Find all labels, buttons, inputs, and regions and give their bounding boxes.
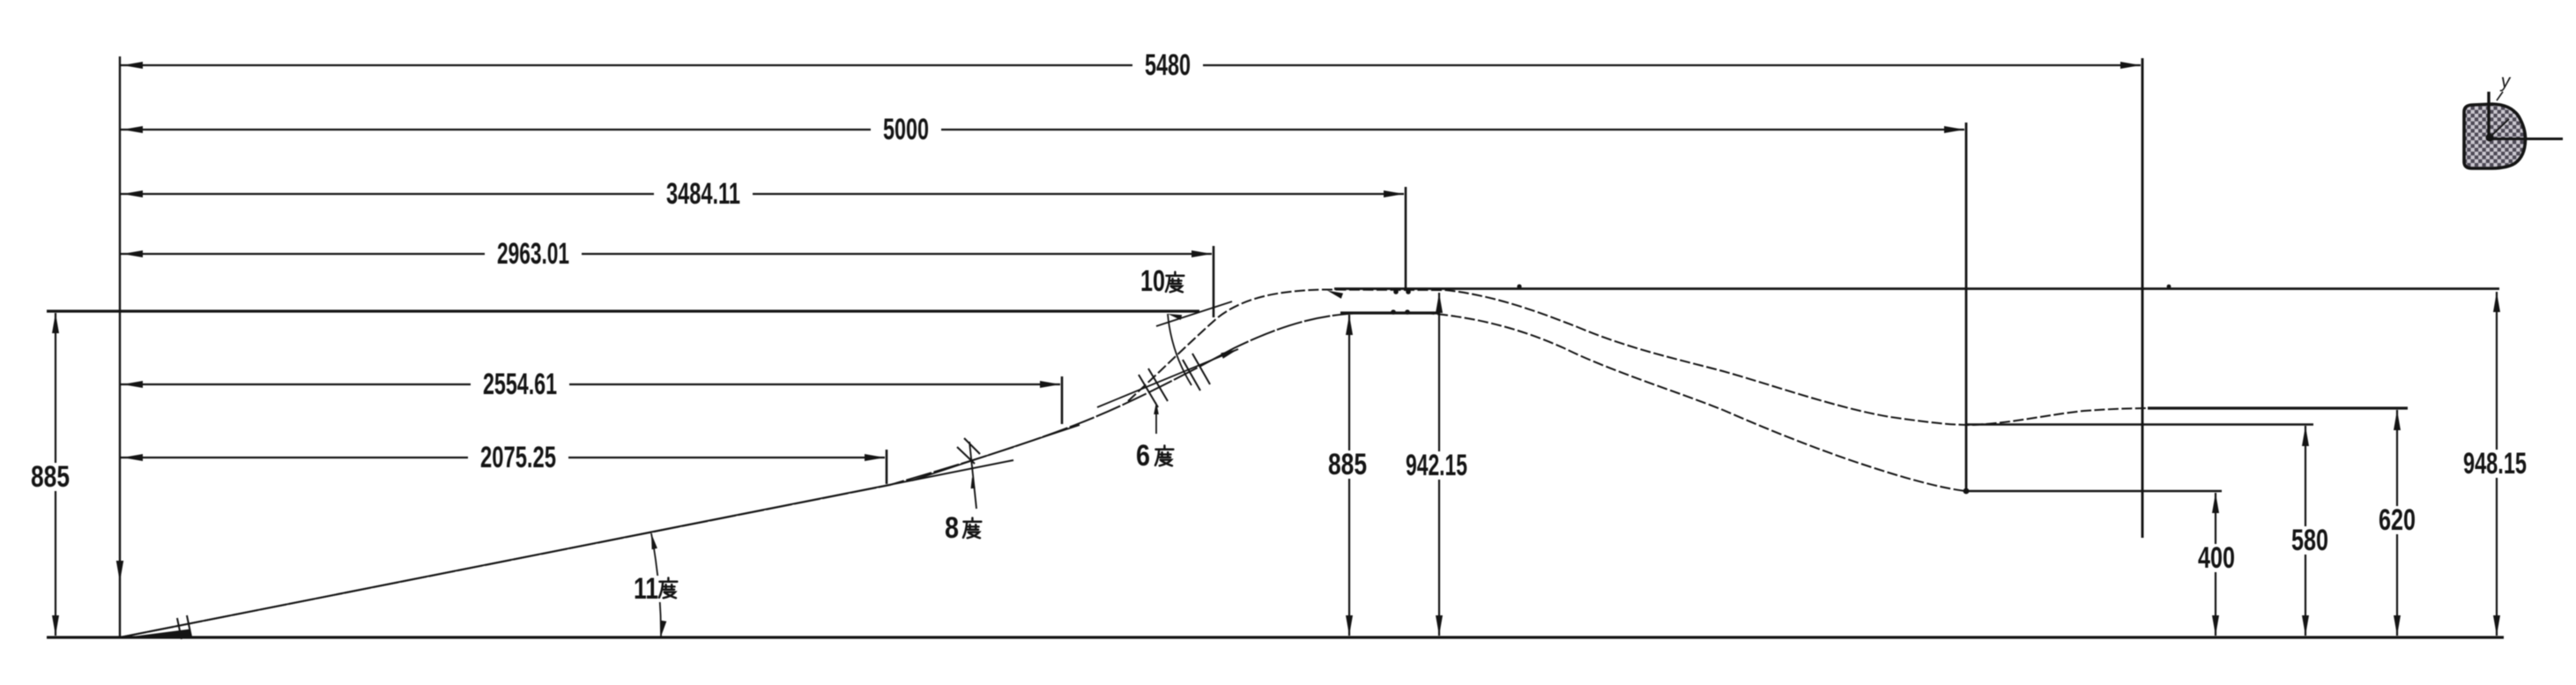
svg-text:400: 400 [2198, 541, 2235, 575]
10-degree tangent chord [1156, 302, 1232, 326]
dimension 2075.25 line [121, 457, 885, 458]
svg-text:2075.25: 2075.25 [480, 441, 556, 474]
dimension 942.15 (crest height upper) top arrow [1436, 293, 1443, 313]
crest tangent point dots on top line [1393, 289, 1399, 294]
8-degree leader stroke through tangent point [969, 442, 976, 509]
dimension 885 (crest height) top arrow [1346, 315, 1353, 335]
extension line for 2075.25 [886, 450, 888, 484]
dimension 3484.11 right arrow [1384, 190, 1404, 197]
dimension 620 top arrow [2394, 410, 2401, 430]
svg-text:2963.01: 2963.01 [497, 237, 569, 271]
948/942-level horizontal reference line (right, through crest top) [1334, 287, 2499, 290]
6-degree leader arrow [1154, 402, 1159, 414]
svg-text:885: 885 [31, 460, 70, 494]
6-degree leader line [1155, 406, 1157, 434]
svg-text:2554.61: 2554.61 [483, 368, 557, 401]
dimension 885 (left height) line [55, 313, 56, 636]
icon origin dot [2486, 134, 2494, 142]
dimension 942.15 (crest height upper) line [1438, 293, 1440, 636]
dimension 948.15 line [2496, 292, 2498, 636]
580-level extension line [1966, 423, 2313, 425]
dimension 942.15 (crest height upper) bottom arrow [1436, 615, 1443, 636]
extension line for 2963.01 [1213, 246, 1215, 317]
down arrow on y-axis [116, 561, 123, 582]
arrow sliver on baseline at origin [129, 629, 190, 638]
dimension 2075.25 left arrow [122, 454, 143, 461]
885-level horizontal reference line (left) [47, 309, 1199, 312]
11-degree straight takeoff line [120, 460, 1013, 637]
dimension 2554.61 line [121, 383, 1060, 385]
8-degree tangent point tick 1 [957, 447, 975, 464]
crest tangent point dots on cap line [1391, 309, 1396, 315]
dimension 2554.61 left arrow [122, 381, 143, 388]
8-degree leader arrow [971, 477, 976, 488]
8-degree tangent chord [912, 425, 1080, 480]
dimension 3484.11 left arrow [122, 190, 143, 197]
8-degree tangent point tick 2 [964, 438, 980, 454]
svg-text:8: 8 [945, 511, 959, 545]
label 度 of angle 11度 [659, 577, 677, 598]
lower profile curve ascent [120, 313, 1410, 637]
icon x-axis line [2489, 138, 2563, 140]
extension line for 5000 [1965, 123, 1968, 491]
dimension 885 (crest height) bottom arrow [1346, 615, 1353, 636]
upper profile curve [1128, 290, 2159, 426]
dimension 948.15 top arrow [2493, 292, 2500, 312]
svg-text:10: 10 [1140, 264, 1165, 298]
dimension 400 bottom arrow [2212, 615, 2219, 636]
6-degree tangent point tick 1 [1139, 375, 1158, 407]
dimension 620 bottom arrow [2394, 615, 2401, 636]
dimension 2963.01 right arrow [1191, 250, 1212, 257]
dimension 620 top arrow [2302, 426, 2309, 446]
dimension 5000 left arrow [122, 126, 143, 133]
dimension 885 (left height) top arrow [52, 313, 59, 333]
10-degree angle arc [1168, 314, 1191, 385]
dimension 5000 right arrow [1944, 126, 1964, 133]
400-level extension line [1966, 490, 2222, 492]
label 度 of angle 8度 [963, 517, 981, 538]
dimension 620 line [2305, 426, 2306, 636]
svg-text:580: 580 [2291, 524, 2328, 557]
10-degree tangent point tick 2 [1192, 354, 1210, 384]
svg-text:6: 6 [1136, 439, 1150, 473]
dimension 5480 left arrow [122, 62, 143, 69]
crest tangent cap line at 885 height [1340, 311, 1440, 314]
dimension 5480 line [121, 64, 2141, 66]
label 度 of angle 6度 [1155, 445, 1173, 465]
dot on right top line [2167, 285, 2171, 289]
dimension 2554.61 right arrow [1040, 381, 1060, 388]
dot on crest top line [1517, 284, 1521, 288]
svg-text:3484.11: 3484.11 [666, 177, 740, 211]
dimension 885 (crest height) line [1348, 315, 1350, 636]
section view icon with hatch fill [2464, 104, 2526, 168]
svg-text:620: 620 [2379, 503, 2416, 537]
svg-text:948.15: 948.15 [2463, 447, 2527, 480]
11-degree arc bottom arrow [661, 621, 666, 637]
dimension 400 top arrow [2212, 493, 2219, 513]
6-degree tangent point tick 2 [1148, 369, 1168, 401]
10-degree tangent point tick 1 [1183, 360, 1200, 391]
icon y-axis stub [2487, 92, 2490, 139]
svg-text:885: 885 [1328, 448, 1367, 481]
baseline (ground reference line) [47, 636, 2504, 638]
dimension 885 (left height) bottom arrow [52, 615, 59, 636]
extension line for 3484.11 [1405, 187, 1407, 291]
6-degree tangent chord [1097, 349, 1238, 407]
svg-text:5480: 5480 [1145, 48, 1191, 82]
arrow at end of 6-degree tangent chord [1221, 349, 1238, 359]
tick arrow at left end of crest top line [1327, 291, 1343, 299]
dimension 5480 right arrow [2120, 62, 2141, 69]
extension line for 2554.61 [1061, 376, 1064, 424]
node: lower curve end point dot [1964, 488, 1970, 495]
dimension 620 line [2396, 410, 2398, 636]
tangency double-tick near origin 2 [187, 615, 191, 637]
dimension 2963.01 left arrow [122, 250, 143, 257]
dimension 620 bottom arrow [2302, 615, 2309, 636]
dimension 948.15 bottom arrow [2493, 615, 2500, 636]
dimension 5000 line [121, 129, 1964, 130]
svg-text:y: y [2499, 71, 2512, 92]
dimension 400 line [2215, 493, 2216, 636]
10-degree arc top arrow [1168, 314, 1182, 320]
dimension 2075.25 right arrow [865, 454, 885, 461]
svg-text:942.15: 942.15 [1406, 449, 1467, 482]
icon y label tick [2497, 92, 2503, 101]
11-degree arc top arrow [651, 533, 657, 549]
620-level extension line [2148, 406, 2408, 409]
dimension 3484.11 line [121, 193, 1404, 195]
label 度 of angle 10度 [1166, 272, 1184, 292]
extension line for 5480 [2142, 58, 2144, 538]
lower profile curve descent [1410, 313, 1966, 491]
svg-text:5000: 5000 [883, 113, 929, 146]
icon diagonal z line [2491, 119, 2509, 137]
svg-text:11: 11 [634, 572, 658, 606]
dimension 2963.01 line [121, 253, 1212, 255]
tangency double-tick near origin 1 [177, 618, 182, 639]
11-degree angle arc [651, 533, 661, 637]
main left extension line / y-axis at x-origin [119, 56, 121, 637]
